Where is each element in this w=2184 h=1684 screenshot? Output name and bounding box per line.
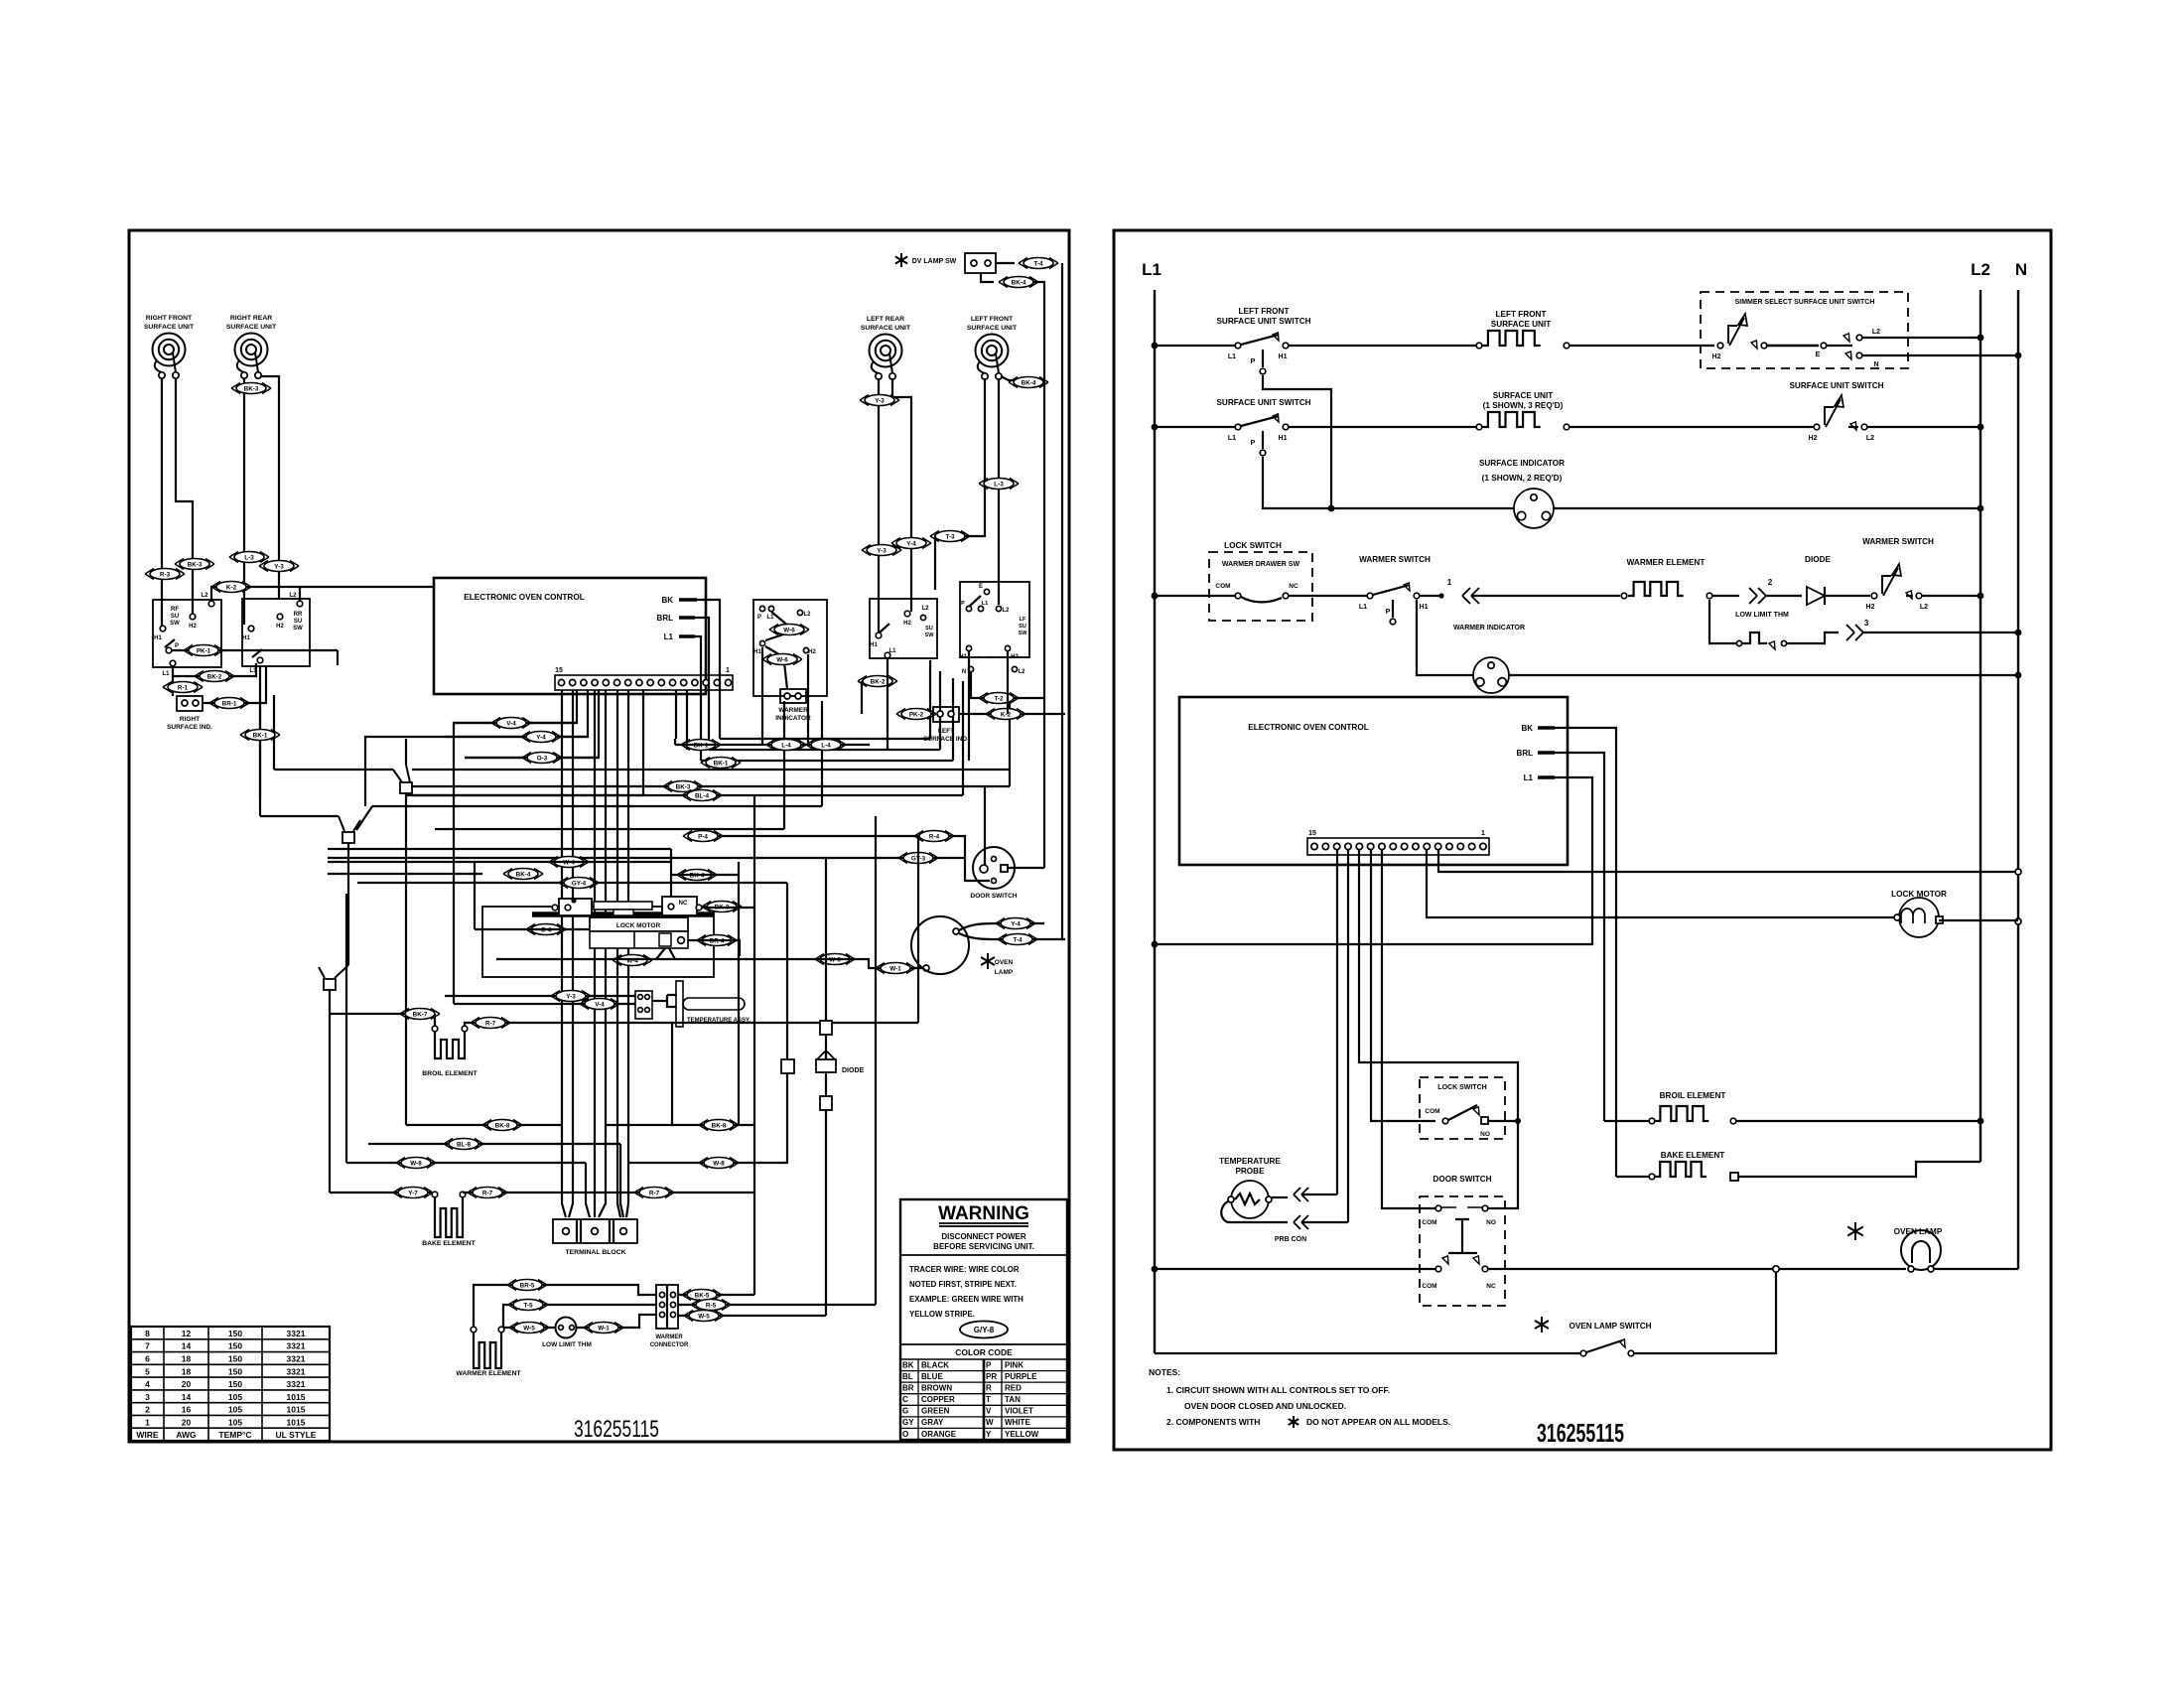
surface unit element	[1482, 412, 1541, 427]
junction	[1152, 424, 1159, 431]
wire	[1272, 1196, 1288, 1198]
svg-text:16: 16	[182, 1405, 192, 1415]
connector R-7	[471, 1018, 510, 1029]
terminal block	[553, 1219, 637, 1243]
svg-text:BK-2: BK-2	[207, 673, 222, 680]
wire	[807, 654, 809, 745]
wire	[161, 378, 163, 626]
connector O-3	[522, 753, 562, 764]
wire	[1867, 426, 1980, 428]
svg-text:BK-5: BK-5	[695, 1292, 710, 1299]
svg-text:VIOLET: VIOLET	[1005, 1407, 1033, 1416]
svg-text:R-7: R-7	[649, 1190, 660, 1196]
connector W-8	[396, 1158, 436, 1169]
connector R-4	[914, 831, 954, 842]
wire	[259, 666, 261, 755]
svg-text:SURFACE INDICATOR: SURFACE INDICATOR	[1479, 459, 1565, 468]
temperature probe connector	[635, 991, 652, 1019]
svg-text:L1: L1	[766, 615, 774, 621]
wire	[935, 378, 985, 590]
wire pin long	[562, 690, 566, 1217]
wire	[243, 378, 245, 625]
svg-text:NOTED FIRST, STRIPE NEXT.: NOTED FIRST, STRIPE NEXT.	[909, 1280, 1017, 1289]
connector BL-8	[444, 1139, 483, 1150]
connector BR-5	[507, 1280, 547, 1291]
wire row	[412, 769, 1010, 771]
svg-text:P: P	[1386, 609, 1391, 616]
connector GY-3	[898, 853, 938, 864]
svg-text:WARMER SWITCH: WARMER SWITCH	[1359, 555, 1431, 564]
svg-text:BEFORE SERVICING UNIT.: BEFORE SERVICING UNIT.	[933, 1242, 1034, 1251]
junction	[2015, 672, 2022, 679]
right front surface unit	[153, 334, 186, 366]
svg-text:BAKE ELEMENT: BAKE ELEMENT	[1661, 1151, 1725, 1160]
lock switch contact box A	[559, 899, 592, 915]
svg-text:L1: L1	[1142, 260, 1161, 279]
wire pin drop	[406, 690, 643, 795]
svg-text:LOW LIMIT THM: LOW LIMIT THM	[542, 1341, 592, 1348]
svg-text:2: 2	[1768, 578, 1773, 587]
svg-text:L2: L2	[921, 606, 929, 612]
svg-text:105: 105	[228, 1392, 242, 1402]
EOC connector strip pins 15-1	[555, 675, 733, 690]
wire	[1008, 867, 1044, 869]
wire	[1488, 1120, 1518, 1122]
simmer select switch box	[1701, 292, 1908, 368]
svg-text:TEMPERATURE: TEMPERATURE	[1219, 1157, 1281, 1166]
left front surface unit element	[1482, 331, 1541, 346]
svg-text:SW: SW	[925, 632, 935, 638]
svg-text:V-4: V-4	[595, 1001, 605, 1008]
wire	[1155, 1352, 1580, 1354]
connector PRB	[1301, 1188, 1308, 1201]
svg-text:O: O	[902, 1430, 908, 1439]
wire	[405, 739, 407, 1125]
svg-text:H1: H1	[753, 649, 761, 655]
connector PRB 2	[1301, 1215, 1308, 1229]
wire pin long	[626, 690, 628, 1217]
diode	[1807, 587, 1825, 605]
wire	[1420, 595, 1441, 597]
wire	[1712, 595, 1739, 597]
svg-text:LEFT FRONT: LEFT FRONT	[971, 316, 1014, 323]
svg-text:BK-2: BK-2	[871, 678, 886, 685]
svg-text:PR: PR	[986, 1372, 997, 1381]
junction	[1978, 505, 1984, 512]
svg-text:OVEN DOOR CLOSED AND UNLOCKED.: OVEN DOOR CLOSED AND UNLOCKED.	[1184, 1401, 1346, 1411]
svg-text:ELECTRONIC OVEN CONTROL: ELECTRONIC OVEN CONTROL	[1248, 723, 1368, 732]
wire pin long	[569, 690, 573, 1217]
connector Y-3	[860, 395, 899, 406]
wire BRL tab	[695, 618, 709, 750]
svg-text:L2: L2	[1920, 604, 1928, 611]
connector L-4	[806, 740, 846, 751]
svg-text:PK-1: PK-1	[197, 647, 211, 654]
svg-text:H1: H1	[1279, 435, 1288, 442]
wire	[1738, 1162, 1980, 1177]
svg-text:W-6: W-6	[783, 627, 795, 633]
svg-text:Y-3: Y-3	[877, 547, 887, 554]
left diagram border	[129, 230, 1069, 1442]
oven lamp left terminal	[923, 965, 929, 971]
connector BR-4	[697, 935, 737, 946]
svg-text:NC: NC	[1289, 583, 1298, 590]
wire	[1709, 600, 1736, 643]
wire	[1616, 1176, 1649, 1178]
svg-text:RED: RED	[1005, 1383, 1022, 1392]
svg-text:COM: COM	[1215, 583, 1230, 590]
wire	[678, 1315, 826, 1317]
svg-text:SURFACE UNIT SWITCH: SURFACE UNIT SWITCH	[1789, 381, 1883, 390]
bundle junction	[319, 965, 348, 978]
svg-text:L2: L2	[1872, 329, 1880, 336]
low limit thermostat	[556, 1318, 577, 1338]
svg-text:L1: L1	[982, 601, 988, 607]
wire	[1932, 1268, 2018, 1270]
svg-text:316255115: 316255115	[574, 1416, 659, 1443]
svg-text:SW: SW	[293, 626, 303, 631]
svg-text:UL STYLE: UL STYLE	[276, 1430, 317, 1440]
wire	[678, 1304, 876, 1306]
svg-text:CONNECTOR: CONNECTOR	[650, 1342, 689, 1348]
wire	[1155, 426, 1235, 428]
wire	[1570, 426, 1814, 428]
wire	[176, 378, 193, 614]
svg-text:PK-2: PK-2	[909, 711, 924, 718]
LR surface unit switch box	[870, 599, 937, 658]
svg-text:150: 150	[228, 1354, 242, 1364]
svg-text:DIODE: DIODE	[842, 1067, 865, 1074]
svg-text:R-3: R-3	[160, 571, 171, 578]
svg-text:7: 7	[145, 1341, 150, 1351]
svg-text:TRACER WIRE: WIRE COLOR: TRACER WIRE: WIRE COLOR	[909, 1265, 1020, 1274]
wire	[1001, 376, 1044, 380]
svg-text:1: 1	[1447, 578, 1452, 587]
svg-text:18: 18	[182, 1354, 192, 1364]
svg-text:3321: 3321	[287, 1354, 306, 1364]
svg-text:WARMER ELEMENT: WARMER ELEMENT	[456, 1370, 521, 1377]
svg-text:Y-4: Y-4	[1011, 920, 1021, 927]
svg-text:R: R	[986, 1383, 992, 1392]
connector BK-3	[175, 559, 214, 570]
connector W-5	[509, 1323, 549, 1333]
wire gauge table	[131, 1327, 330, 1441]
svg-text:L2: L2	[1002, 608, 1010, 614]
wire	[1488, 1268, 1906, 1270]
wire	[917, 836, 919, 1023]
svg-text:R-4: R-4	[929, 833, 940, 840]
connector T-4	[998, 934, 1037, 945]
wire	[1301, 1193, 1337, 1195]
svg-text:WIRE: WIRE	[136, 1430, 159, 1440]
svg-text:DO NOT APPEAR ON ALL MODELS.: DO NOT APPEAR ON ALL MODELS.	[1306, 1417, 1450, 1427]
svg-text:6: 6	[145, 1354, 150, 1364]
svg-text:V-4: V-4	[506, 720, 516, 727]
connector BK-5	[682, 1290, 722, 1301]
svg-text:TAN: TAN	[1005, 1395, 1021, 1404]
svg-text:EXAMPLE: GREEN WIRE WITH: EXAMPLE: GREEN WIRE WITH	[909, 1295, 1024, 1304]
wire row	[330, 1192, 431, 1193]
svg-text:AWG: AWG	[176, 1430, 197, 1440]
diode	[817, 1051, 835, 1059]
wire pin drop	[454, 690, 577, 1004]
junction	[1773, 1266, 1779, 1272]
svg-text:W-1: W-1	[598, 1325, 610, 1332]
connector PK-1	[184, 645, 223, 656]
broil element terminals	[432, 1026, 438, 1032]
wire	[1736, 1120, 1980, 1122]
wire	[887, 658, 888, 750]
connector BK-2	[858, 676, 897, 687]
svg-text:SURFACE UNIT: SURFACE UNIT	[967, 325, 1018, 332]
wire pin drop	[465, 690, 599, 758]
svg-text:LOCK SWITCH: LOCK SWITCH	[1224, 541, 1282, 550]
connector W-1	[584, 1323, 623, 1333]
svg-text:W-5: W-5	[523, 1325, 535, 1332]
svg-text:L-4: L-4	[781, 742, 791, 749]
svg-text:PURPLE: PURPLE	[1005, 1372, 1037, 1381]
wire BRL	[1555, 753, 1604, 1121]
svg-text:COM: COM	[1422, 1283, 1436, 1290]
svg-text:BL: BL	[902, 1372, 913, 1381]
svg-text:BK-8: BK-8	[712, 1122, 727, 1129]
connector K-2	[986, 709, 1025, 720]
lock motor bar	[532, 912, 714, 917]
wire row	[328, 861, 671, 863]
connector 2	[1749, 588, 1757, 604]
connector W-4	[549, 857, 589, 868]
svg-text:BK-3: BK-3	[188, 561, 203, 568]
svg-text:15: 15	[1308, 830, 1316, 837]
wire row	[346, 894, 590, 1217]
right diagram border	[1114, 230, 2051, 1450]
svg-text:H2: H2	[276, 624, 284, 630]
svg-text:L1: L1	[888, 648, 896, 654]
svg-text:3321: 3321	[287, 1379, 306, 1389]
svg-text:WARMER: WARMER	[655, 1334, 683, 1340]
svg-text:LF: LF	[1020, 617, 1026, 623]
broil element	[435, 1032, 465, 1058]
connector 3	[1846, 625, 1854, 640]
wire	[1922, 595, 1980, 597]
connector L-3	[229, 552, 269, 563]
warmer element symbol	[1628, 582, 1684, 596]
svg-text:150: 150	[228, 1329, 242, 1338]
svg-text:H2: H2	[903, 621, 911, 627]
wire L1 tab	[695, 636, 701, 761]
svg-text:L-3: L-3	[994, 481, 1004, 488]
svg-text:LOW LIMIT THM: LOW LIMIT THM	[1735, 612, 1789, 619]
lock switch contact box B	[662, 897, 697, 915]
connector W-5	[684, 1311, 724, 1322]
svg-text:L1: L1	[1228, 353, 1236, 360]
connector BL-4	[682, 790, 722, 801]
svg-text:1015: 1015	[287, 1392, 306, 1402]
LF switch dashed terminals	[960, 656, 1029, 658]
oven lamp (right)	[1847, 1222, 1863, 1240]
svg-text:LEFT FRONT: LEFT FRONT	[1239, 307, 1290, 316]
wire	[503, 1305, 656, 1328]
svg-text:105: 105	[228, 1405, 242, 1415]
svg-text:P: P	[175, 643, 179, 649]
svg-text:150: 150	[228, 1341, 242, 1351]
svg-text:1: 1	[726, 667, 730, 674]
svg-text:3321: 3321	[287, 1341, 306, 1351]
wire	[825, 858, 827, 1316]
wire	[475, 862, 590, 929]
svg-text:C: C	[902, 1395, 908, 1404]
wire	[1825, 595, 1870, 597]
svg-text:14: 14	[182, 1392, 192, 1402]
svg-text:2: 2	[145, 1405, 150, 1415]
svg-text:COLOR CODE: COLOR CODE	[955, 1347, 1013, 1357]
wire	[1862, 354, 2018, 356]
svg-text:8: 8	[145, 1329, 150, 1338]
connector BK-4	[1009, 377, 1048, 388]
svg-text:ELECTRONIC OVEN CONTROL: ELECTRONIC OVEN CONTROL	[464, 593, 584, 602]
wire row	[701, 678, 953, 761]
svg-text:E: E	[1816, 351, 1821, 358]
svg-text:BK-1: BK-1	[253, 732, 268, 739]
wire row	[412, 698, 1010, 786]
wire pin	[1427, 850, 1897, 917]
svg-text:G/Y-8: G/Y-8	[974, 1326, 995, 1334]
wire row	[628, 1162, 788, 1164]
svg-text:W-6: W-6	[776, 656, 788, 663]
connector O-4	[526, 924, 566, 935]
junction	[2015, 352, 2022, 359]
connector Y-4	[996, 918, 1035, 929]
junction	[1978, 593, 1984, 600]
wire	[173, 663, 256, 676]
svg-text:3321: 3321	[287, 1329, 306, 1338]
connector R-5	[691, 1300, 731, 1311]
svg-text:SIMMER SELECT SURFACE UNIT SWI: SIMMER SELECT SURFACE UNIT SWITCH	[1735, 299, 1875, 306]
right surface indicator	[177, 696, 203, 711]
svg-text:R-7: R-7	[482, 1190, 493, 1196]
svg-text:150: 150	[228, 1379, 242, 1389]
wire	[1263, 457, 1514, 508]
connector BK-3	[702, 902, 742, 912]
svg-text:BK: BK	[661, 596, 673, 605]
svg-text:SURFACE UNIT: SURFACE UNIT	[1493, 391, 1554, 400]
svg-text:R-7: R-7	[485, 1020, 496, 1027]
wire pin long	[617, 690, 620, 1217]
inline connector	[781, 1059, 794, 1073]
svg-text:W-1: W-1	[889, 965, 901, 972]
svg-text:PRB CON: PRB CON	[1275, 1236, 1306, 1243]
svg-text:DV LAMP SW: DV LAMP SW	[912, 258, 957, 265]
connector BK-8	[699, 1120, 739, 1131]
svg-text:H2: H2	[808, 649, 816, 655]
svg-text:L2: L2	[1866, 435, 1874, 442]
simmer switch contacts	[1717, 343, 1723, 349]
wire	[1155, 345, 1235, 347]
svg-text:LEFT FRONT: LEFT FRONT	[1496, 310, 1547, 319]
svg-text:L2: L2	[803, 612, 811, 618]
svg-text:1: 1	[145, 1417, 150, 1427]
svg-text:SURFACE IND.: SURFACE IND.	[167, 724, 212, 731]
connector BK-1	[681, 740, 721, 751]
wire	[959, 933, 1065, 939]
svg-text:L-4: L-4	[821, 742, 831, 749]
svg-text:L-3: L-3	[244, 554, 254, 561]
inline connector	[820, 1021, 832, 1035]
svg-text:BK-4: BK-4	[1012, 279, 1026, 286]
svg-text:SURFACE UNIT: SURFACE UNIT	[861, 325, 911, 332]
lock cam plate	[594, 902, 652, 910]
svg-text:OVEN: OVEN	[995, 959, 1014, 966]
svg-text:L2: L2	[289, 593, 297, 599]
wire	[1155, 1268, 1435, 1270]
connector R-1	[163, 682, 203, 693]
svg-text:W-5: W-5	[698, 1313, 710, 1320]
svg-text:P: P	[1251, 440, 1256, 447]
svg-text:SU: SU	[294, 619, 302, 625]
svg-text:H2: H2	[189, 624, 197, 630]
connector K-2	[211, 582, 251, 593]
wire	[875, 816, 877, 1305]
svg-text:20: 20	[182, 1379, 192, 1389]
svg-text:BR: BR	[902, 1383, 914, 1392]
wire	[1289, 345, 1476, 347]
svg-text:20: 20	[182, 1417, 192, 1427]
wire	[960, 713, 1065, 715]
svg-text:COM: COM	[1425, 1108, 1439, 1115]
wire pin long	[599, 690, 606, 1217]
wire	[1862, 337, 1980, 339]
svg-text:WARMER ELEMENT: WARMER ELEMENT	[1627, 558, 1706, 567]
connector W-6	[762, 654, 802, 665]
connector V-4	[491, 718, 531, 729]
svg-text:1015: 1015	[287, 1405, 306, 1415]
junction	[1978, 424, 1984, 431]
svg-text:316255115: 316255115	[1537, 1418, 1624, 1448]
wire	[786, 883, 788, 1163]
bake element terminals	[432, 1192, 438, 1197]
junction	[1978, 335, 1984, 342]
svg-text:Y-3: Y-3	[274, 563, 284, 570]
EOC connector strip (right)	[1307, 838, 1489, 855]
wire	[261, 376, 279, 600]
svg-text:18: 18	[182, 1366, 192, 1376]
wire	[878, 378, 880, 633]
connector Y-4	[521, 732, 561, 743]
svg-text:BRL: BRL	[657, 614, 674, 623]
svg-text:DISCONNECT POWER: DISCONNECT POWER	[941, 1232, 1026, 1241]
wire row	[260, 707, 339, 816]
svg-text:LEFT: LEFT	[938, 728, 954, 735]
svg-text:T-4: T-4	[1033, 260, 1043, 267]
wire row	[454, 1003, 635, 1005]
wire	[984, 786, 986, 865]
svg-text:SURFACE UNIT SWITCH: SURFACE UNIT SWITCH	[1216, 317, 1310, 326]
wire row	[357, 882, 787, 884]
wire pin drop	[365, 690, 588, 806]
svg-text:WARMER SWITCH: WARMER SWITCH	[1862, 537, 1934, 546]
svg-text:H1: H1	[1279, 353, 1288, 360]
connector Y-3	[551, 991, 591, 1002]
wire	[1570, 345, 1714, 347]
svg-text:150: 150	[228, 1366, 242, 1376]
svg-text:BL-8: BL-8	[457, 1141, 471, 1148]
wire	[959, 923, 1044, 930]
wire	[998, 378, 1000, 605]
connector BK-3	[663, 781, 703, 792]
wire pin	[1359, 850, 1518, 1208]
wire pin	[1347, 850, 1349, 1222]
svg-text:(1 SHOWN, 3 REQ'D): (1 SHOWN, 3 REQ'D)	[1483, 401, 1564, 410]
